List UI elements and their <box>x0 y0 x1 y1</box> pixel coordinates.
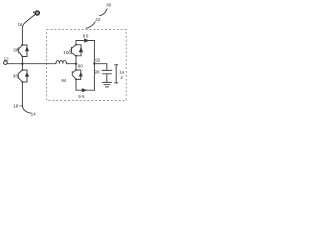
svg-text:42: 42 <box>95 17 101 22</box>
svg-text:92: 92 <box>95 58 101 63</box>
svg-text:96: 96 <box>78 94 85 99</box>
svg-text:2: 2 <box>120 75 123 80</box>
svg-text:1a: 1a <box>119 69 125 74</box>
svg-text:90: 90 <box>78 64 84 69</box>
svg-text:18: 18 <box>13 104 19 109</box>
svg-text:100: 100 <box>63 50 71 55</box>
svg-text:96: 96 <box>83 33 90 38</box>
svg-text:38: 38 <box>13 73 19 78</box>
svg-text:12: 12 <box>4 56 10 61</box>
svg-text:36: 36 <box>13 48 19 53</box>
svg-text:40: 40 <box>106 2 112 7</box>
svg-text:96: 96 <box>94 70 100 75</box>
svg-text:16: 16 <box>18 22 23 27</box>
svg-text:14: 14 <box>31 111 37 116</box>
svg-text:94: 94 <box>61 78 67 83</box>
